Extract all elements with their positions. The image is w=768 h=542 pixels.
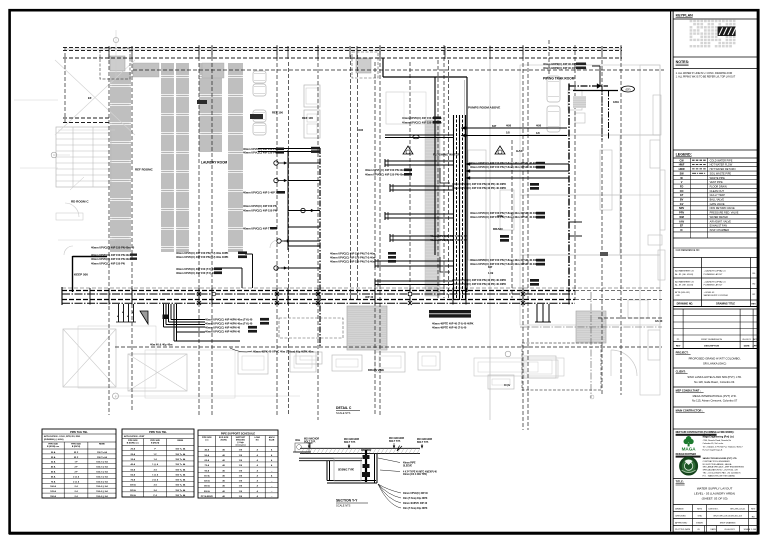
svg-text:2 @ 4: 2 @ 4 — [73, 480, 80, 483]
svg-text:KEYPLAN: KEYPLAN — [676, 14, 694, 18]
svg-text:100 A: 100 A — [130, 484, 136, 487]
svg-text:SHOP DRAWING: SHOP DRAWING — [720, 522, 736, 525]
svg-text:Maga Engineering (Pvt) Ltd.: Maga Engineering (Pvt) Ltd. — [703, 436, 735, 439]
svg-text:200 A: 200 A — [204, 490, 210, 493]
svg-text:AL. JR. (GE. 42003): AL. JR. (GE. 42003) — [675, 273, 693, 276]
svg-text:40 (hr: 40 (hr — [504, 384, 510, 387]
svg-text:PROJECT:: PROJECT: — [676, 351, 689, 355]
svg-text:40mm UPVC(C) 40P 40PN 40m (T-f: 40mm UPVC(C) 40P 40PN 40m (T-fl) 40 — [205, 322, 253, 326]
svg-text:40mm UPVC(C) 40P 150 PN 40m 40: 40mm UPVC(C) 40P 150 PN 40m 40 — [91, 246, 135, 250]
svg-text:NO 64/2 PIVILI ABNGE, JA-ELA: NO 64/2 PIVILI ABNGE, JA-ELA — [703, 463, 732, 466]
svg-text:HOT WATER FLOW: HOT WATER FLOW — [710, 164, 733, 167]
svg-text:FD: FD — [680, 185, 684, 188]
svg-text:REMK: REMK — [99, 444, 105, 446]
svg-text:40 A: 40 A — [131, 463, 136, 466]
svg-text:1849: 1849 — [613, 100, 619, 104]
svg-text:40m (T-flow) 40p 40PK: 40m (T-flow) 40p 40PK — [403, 497, 428, 500]
svg-text:REV: REV — [676, 346, 681, 348]
svg-text:150 4 @ 64: 150 4 @ 64 — [96, 495, 108, 498]
svg-text:40mm UPVC(C) 40P 150 PN (T-f): 40mm UPVC(C) 40P 150 PN (T-f) 40m 40PK — [176, 251, 229, 255]
svg-text:STA: STA — [698, 515, 703, 518]
svg-text:APPLICATION : COLD, WTR, RO,: APPLICATION : COLD, WTR, RO, DRG — [44, 435, 81, 438]
svg-text:40m: 40m — [295, 438, 301, 442]
svg-text:150 4 @ 64: 150 4 @ 64 — [96, 485, 108, 488]
svg-text:B (NOM) mm: B (NOM) mm — [47, 446, 59, 448]
svg-text:150 4 @ 64: 150 4 @ 64 — [96, 490, 108, 493]
svg-text:40mm UPVC(C) 40P 150 PN (T-flo: 40mm UPVC(C) 40P 150 PN (T-flow) 40m 40T… — [470, 165, 539, 169]
svg-text:WATER SUPPLY LAYOUT: WATER SUPPLY LAYOUT — [697, 487, 733, 491]
svg-text:05-06-2021: 05-06-2021 — [724, 529, 735, 531]
svg-text:75 A: 75 A — [131, 479, 136, 482]
svg-text:25 F: 25 F — [74, 452, 79, 454]
svg-text:32 A: 32 A — [131, 458, 136, 461]
svg-text:AIR ADMIT. VALVE: AIR ADMIT. VALVE — [710, 220, 732, 223]
svg-text:PRESSURE RED. VALVE: PRESSURE RED. VALVE — [710, 212, 739, 215]
svg-text:ATTN (GSL-011): ATTN (GSL-011) — [675, 291, 690, 294]
svg-text:1 B: 1 B — [239, 475, 243, 477]
svg-text:PLUMBING LAYOUT: PLUMBING LAYOUT — [704, 273, 724, 276]
svg-text:40mm UPVC(C) 40P 150 PN (40 PK: 40mm UPVC(C) 40P 150 PN (40 PK) 40 40PK — [452, 186, 506, 190]
svg-text:GAS: GAS — [516, 149, 523, 153]
svg-text:1 B: 1 B — [239, 455, 243, 457]
svg-text:LEGEND:: LEGEND: — [676, 153, 692, 157]
svg-text:40mm UPVC(C) 40P 150 PN: 40mm UPVC(C) 40P 150 PN — [243, 209, 277, 213]
svg-text:--: -- — [271, 496, 273, 498]
svg-text:REV: REV — [751, 509, 756, 511]
svg-text:150 2 @ 64: 150 2 @ 64 — [96, 475, 108, 478]
svg-text:160 A: 160 A — [204, 485, 210, 488]
svg-text:150 T+ 64: 150 T+ 64 — [175, 479, 186, 482]
svg-text:MEP CONSULTANT :: MEP CONSULTANT : — [676, 389, 701, 393]
svg-text:40mm UPVC(C) 40P 150 PN (T-flo: 40mm UPVC(C) 40P 150 PN (T-flow) 40m 40T… — [470, 211, 539, 215]
svg-text:--: -- — [271, 491, 273, 493]
svg-text:125 A: 125 A — [204, 480, 210, 483]
svg-text:MAGA: MAGA — [682, 447, 697, 452]
svg-text:DESIGN PARTNER: DESIGN PARTNER — [676, 453, 697, 456]
svg-text:CLEAN OUT: CLEAN OUT — [710, 190, 725, 193]
svg-text:ALKHANSHEER C/O: ALKHANSHEER C/O — [675, 270, 694, 273]
svg-text:mm (spec): mm (spec) — [235, 444, 245, 446]
svg-text:40mm UPVC(C) 40P 150 PN (T-f): 40mm UPVC(C) 40P 150 PN (T-f) 40m — [330, 260, 376, 264]
svg-text:75 A: 75 A — [205, 464, 210, 467]
svg-text:EF: EF — [88, 96, 92, 100]
svg-text:125 A: 125 A — [50, 490, 56, 493]
svg-text:COLD WATER PIPE: COLD WATER PIPE — [710, 159, 733, 162]
svg-text:AL. JR. (GE. 42003): AL. JR. (GE. 42003) — [675, 284, 693, 287]
svg-text:65 A: 65 A — [205, 459, 210, 462]
svg-text:40/6x: 40/6x — [497, 214, 504, 218]
svg-text:PIPING TRAK ROOM: PIPING TRAK ROOM — [543, 77, 575, 81]
svg-text:MEP SUB CONTRACTOR (PLUMBING: MEP SUB CONTRACTOR (PLUMBING & FIRE WORK… — [676, 431, 735, 434]
svg-text:WM: WM — [679, 216, 683, 219]
svg-text:40mm 40PK 40 UPVC 40m (T-flow): 40mm 40PK 40 UPVC 40m (T-flow) 40p 40PK … — [253, 350, 314, 354]
svg-text:M10 ANCHOR: M10 ANCHOR — [417, 438, 432, 441]
svg-text:EXHAUST FAN: EXHAUST FAN — [710, 225, 728, 228]
svg-text:PIPE SUPPORT SCHEDULE: PIPE SUPPORT SCHEDULE — [221, 431, 255, 435]
svg-text:BOLT TYP.: BOLT TYP. — [344, 442, 356, 444]
svg-text:SRI LANKA SPECIALS - MEP ENGIN: SRI LANKA SPECIALS - MEP ENGINEERING — [703, 466, 745, 469]
svg-text:FLUSHING WATER: FLUSHING WATER — [433, 153, 461, 157]
svg-text:DETAIL C: DETAIL C — [336, 406, 352, 410]
svg-text:75 A: 75 A — [51, 480, 56, 483]
svg-text:150 T+ 64: 150 T+ 64 — [175, 494, 186, 497]
svg-text:No 115, Attram Crescent, Colom: No 115, Attram Crescent, Colombo 07 — [692, 399, 738, 403]
svg-text:P.O. : SANDOTEC.NET SRI LANKA: P.O. : SANDOTEC.NET SRI LANKA — [703, 474, 736, 477]
svg-text:150 A: 150 A — [50, 495, 56, 498]
svg-text:BOLT TYP.: BOLT TYP. — [417, 442, 429, 444]
svg-text:WS-P-GHC-LVL03-WS-300-103: WS-P-GHC-LVL03-WS-300-103 — [713, 516, 742, 518]
svg-text:2 @ 4: 2 @ 4 — [73, 475, 80, 478]
svg-text:(EF): (EF) — [625, 87, 630, 91]
svg-text:CAD REFERENCE NO:: CAD REFERENCE NO: — [676, 249, 701, 252]
svg-text:150 T+ 64: 150 T+ 64 — [175, 448, 186, 451]
svg-text:REF ROOMC: REF ROOMC — [135, 168, 154, 172]
svg-text:150 2 @ 64: 150 2 @ 64 — [96, 466, 108, 469]
svg-text:40mm UPVC(C) 40P 150 PN: 40mm UPVC(C) 40P 150 PN — [243, 151, 277, 155]
svg-text:DRAIN VINE: DRAIN VINE — [368, 368, 384, 372]
svg-text:GS 40: GS 40 — [655, 319, 663, 323]
svg-text:PLUMBING LAYOUT: PLUMBING LAYOUT — [704, 284, 724, 287]
svg-text:REF 100: REF 100 — [302, 116, 313, 120]
svg-text:125 A: 125 A — [130, 489, 136, 492]
svg-text:#200, Nawala Road, Nawala,Sri: #200, Nawala Road, Nawala,Sri — [703, 440, 732, 442]
svg-text:DESCRIPTION: DESCRIPTION — [704, 346, 719, 348]
svg-text:HOT WATER RETURN: HOT WATER RETURN — [710, 168, 736, 171]
svg-text:110 A: 110 A — [204, 474, 210, 477]
svg-text:B (INCH): B (INCH) — [151, 443, 160, 445]
svg-text:50 A: 50 A — [205, 454, 210, 457]
svg-text:--: -- — [271, 481, 273, 483]
svg-text:40mm UPVC(C) 40P 150 PN (T-flo: 40mm UPVC(C) 40P 150 PN (T-flow) 40m 40T… — [470, 161, 539, 165]
svg-text:150 T+ 64: 150 T+ 64 — [175, 489, 186, 492]
svg-text:40P 40: 40P 40 — [365, 295, 374, 299]
svg-text:25 A: 25 A — [51, 456, 56, 459]
svg-text:HWF: HWF — [679, 164, 685, 167]
svg-text:APPLICATION : VENT: APPLICATION : VENT — [124, 435, 145, 438]
svg-text:AAV: AAV — [679, 220, 684, 223]
svg-text:PUMPS ROOM ABOVE: PUMPS ROOM ABOVE — [468, 106, 500, 110]
svg-text:1 @ 4: 1 @ 4 — [152, 473, 159, 476]
svg-text:40mm UPVC(C) 40P 150 PN (T-flo: 40mm UPVC(C) 40P 150 PN (T-flow) 40m 40T… — [470, 258, 539, 262]
svg-text:APPROVED: APPROVED — [675, 522, 688, 525]
svg-text:SPECIALIZATION NO - LK/ITY/44: SPECIALIZATION NO - LK/ITY/44 - 0/8 — [703, 469, 739, 472]
svg-text:REMK: REMK — [177, 440, 183, 442]
svg-text:40mm UPVC(C) 40P 150 PN: 40mm UPVC(C) 40P 150 PN — [91, 262, 125, 266]
svg-text:GT: GT — [680, 194, 684, 197]
svg-text:150 T+ 64: 150 T+ 64 — [175, 463, 186, 466]
svg-text:B (NOM) mm: B (NOM) mm — [127, 443, 139, 445]
svg-text:PIPE TAG TBL: PIPE TAG TBL — [149, 430, 167, 434]
svg-text:NOTES:: NOTES: — [676, 60, 690, 64]
svg-text:+ LEVEL 03: + LEVEL 03 — [704, 292, 716, 294]
svg-text:50 A: 50 A — [131, 468, 136, 471]
svg-text:GULLY TRAP: GULLY TRAP — [710, 194, 726, 197]
svg-text:TITLE:: TITLE: — [676, 480, 684, 484]
svg-text:150 T+ 64: 150 T+ 64 — [175, 453, 186, 456]
svg-text:1 B: 1 B — [239, 486, 243, 488]
svg-text:BALL VALVE: BALL VALVE — [710, 199, 725, 202]
svg-text:20 A: 20 A — [131, 448, 136, 451]
svg-text:PROPOSED GRAND HYATT COLOMBO,: PROPOSED GRAND HYATT COLOMBO, — [689, 357, 741, 361]
svg-text:1 B: 1 B — [239, 491, 243, 493]
svg-text:40 A: 40 A — [205, 449, 210, 452]
svg-text:RD ROOM C: RD ROOM C — [71, 200, 89, 204]
svg-text:1 B: 1 B — [239, 460, 243, 462]
svg-text:TEL: +94 112236475 FAX: +94 11: TEL: +94 112236475 FAX: +94 112236476 — [703, 472, 742, 475]
svg-text:40mm PIPE: 40mm PIPE — [403, 462, 416, 465]
svg-text:B (INCH): B (INCH) — [72, 446, 81, 448]
svg-text:1/8: 1/8 — [506, 131, 510, 135]
svg-text:40mm UPVC(C) 40P 150 PN (T-flo: 40mm UPVC(C) 40P 150 PN (T-flow) 40m 40T… — [470, 215, 539, 219]
svg-text:WASTE PIPE: WASTE PIPE — [710, 177, 726, 180]
svg-text:(NOM): (NOM) — [221, 440, 227, 442]
svg-text:1 B: 1 B — [239, 465, 243, 467]
svg-text:40mm UPVC(C) 40P 150 PN (T-f): 40mm UPVC(C) 40P 150 PN (T-f) 40m — [330, 252, 376, 256]
svg-text:BOLT TYP.: BOLT TYP. — [389, 441, 401, 443]
svg-text:DATE: DATE — [711, 528, 717, 531]
svg-text:MEGA INTERNATIONAL (PVT) LTD.: MEGA INTERNATIONAL (PVT) LTD. — [693, 394, 737, 398]
svg-text:40mm UPVC(C) 40P 40PN 40: 40mm UPVC(C) 40P 40PN 40 — [205, 330, 241, 334]
svg-text:40mm (XX 4 40G TPK): 40mm (XX 4 40G TPK) — [403, 473, 427, 476]
svg-text:NON RETURN VALVE: NON RETURN VALVE — [710, 207, 735, 210]
svg-text:MAIN CONTRACTOR :: MAIN CONTRACTOR : — [676, 409, 703, 413]
svg-text:IC: IC — [680, 229, 683, 232]
svg-text:No 118, Galle Road , Colombo 0: No 118, Galle Road , Colombo 03. — [694, 380, 735, 384]
svg-text:847: 847 — [492, 124, 497, 128]
svg-text:40mm UPVC(C) 40P 150 PN (40 PK: 40mm UPVC(C) 40P 150 PN (40 PK) 40 40PK — [452, 282, 506, 286]
svg-text:CONTRACTOR & ENGINEER: CONTRACTOR & ENGINEER — [703, 460, 731, 463]
svg-text:40mm UPVC(C) 40P 5 40P 150m: 40mm UPVC(C) 40P 5 40P 150m — [243, 191, 283, 195]
svg-text:FLOOR DRAIN: FLOOR DRAIN — [710, 185, 727, 188]
svg-text:40mm UPVC(C) 40P 150 (T-f) 40P: 40mm UPVC(C) 40P 150 (T-f) 40PK — [176, 271, 218, 275]
svg-text:40mm UPVC(C) 40P 150 PN: 40mm UPVC(C) 40P 150 PN — [243, 204, 277, 208]
svg-text:150 4 @ 64: 150 4 @ 64 — [96, 480, 108, 483]
svg-text:PIPE TAG TBL: PIPE TAG TBL — [70, 430, 88, 434]
svg-text:40mm UPVC(C) 40P 150 PN 40m: 40mm UPVC(C) 40P 150 PN 40m — [91, 253, 131, 257]
svg-text:M10 ANCHOR: M10 ANCHOR — [304, 438, 319, 441]
svg-text:NRV: NRV — [679, 207, 685, 210]
svg-text:--: -- — [271, 470, 273, 472]
svg-text:1:100: 1:100 — [751, 529, 757, 531]
svg-text:INSP. CHAMBER: INSP. CHAMBER — [710, 229, 730, 232]
svg-text:FIRST SUBMISSION: FIRST SUBMISSION — [701, 339, 722, 341]
svg-text:SOIL WASTE PIPE: SOIL WASTE PIPE — [710, 172, 732, 175]
svg-text:SECTION Y-Y: SECTION Y-Y — [336, 499, 358, 503]
svg-text:40mm UPVC(C) 40P 150 40 PK: 40mm UPVC(C) 40P 150 40 PK — [430, 238, 467, 242]
svg-text:1-09: 1-09 — [488, 271, 494, 275]
svg-text:40 A: 40 A — [51, 466, 56, 469]
svg-text:40mm UPVC(C) 40P 150 PN (T-f): 40mm UPVC(C) 40P 150 PN (T-f) 40m 40PK — [176, 255, 229, 259]
svg-text:--: -- — [271, 486, 273, 488]
svg-text:WATER SUPPLY SYSTEM: WATER SUPPLY SYSTEM — [704, 294, 728, 297]
svg-text:SW: SW — [680, 172, 685, 175]
svg-text:1 @ 4: 1 @ 4 — [152, 463, 159, 466]
svg-text:SLAB: SLAB — [269, 439, 275, 442]
svg-text:25 F: 25 F — [74, 457, 79, 459]
svg-text:100 A: 100 A — [50, 485, 56, 488]
svg-text:Tel: +94(0)11 4 795700 Fax:: Tel: +94(0)11 4 795700 Fax: 94(0)11 2 80… — [703, 446, 744, 448]
svg-text:40/6: 40/6 — [358, 128, 364, 132]
svg-text:EF: EF — [680, 225, 684, 228]
svg-text:DRAWN: DRAWN — [675, 508, 684, 511]
svg-text:25 A: 25 A — [131, 453, 136, 456]
svg-text:mm: mm — [205, 440, 209, 442]
svg-text:65 A: 65 A — [51, 475, 56, 478]
svg-text:Colombo 05, Sri Lanka.: Colombo 05, Sri Lanka. — [703, 443, 724, 445]
svg-text:40mm UPVC(C) 40P 150 (T-f) 40P: 40mm UPVC(C) 40P 150 (T-f) 40PK — [176, 267, 218, 271]
svg-text:GV: GV — [680, 203, 684, 206]
svg-text:150 Tx 64: 150 Tx 64 — [97, 456, 108, 459]
svg-text:+ LAUNDRY (UPVA) CO.: + LAUNDRY (UPVA) CO. — [704, 270, 727, 273]
svg-text:SANDO TECHNOLOGIES (PVT) LTD.: SANDO TECHNOLOGIES (PVT) LTD. — [703, 457, 738, 460]
svg-text:GHC-WS-L03-01: GHC-WS-L03-01 — [730, 509, 746, 511]
svg-text:+ LAUNDRY (UPVA) CO.: + LAUNDRY (UPVA) CO. — [704, 280, 727, 283]
svg-text:ENGR: ENGR — [696, 523, 703, 525]
svg-text:40mm UPVC(C) 40P 150 PN 40m: 40mm UPVC(C) 40P 150 PN 40m — [91, 257, 131, 261]
svg-text:150 T+ 64: 150 T+ 64 — [175, 458, 186, 461]
svg-text:2 @ 4: 2 @ 4 — [152, 479, 159, 482]
svg-text:1 B: 1 B — [239, 450, 243, 452]
svg-text:REF 100: REF 100 — [272, 111, 283, 115]
svg-text:PLOTTED DATE: PLOTTED DATE — [675, 528, 691, 531]
svg-text:65 A: 65 A — [131, 473, 136, 476]
svg-text:SCALE NTS: SCALE NTS — [336, 411, 351, 415]
svg-text:SINO LANKA HOTELS AND SPA (PVT: SINO LANKA HOTELS AND SPA (PVT). LTD. — [687, 375, 742, 379]
svg-text:32 A: 32 A — [51, 461, 56, 464]
svg-text:WATER METER: WATER METER — [710, 216, 728, 219]
svg-text:150 T+ 64: 150 T+ 64 — [175, 468, 186, 471]
svg-text:VENT PIPE: VENT PIPE — [710, 181, 723, 184]
svg-text:40mm 40UPVC 40P 40: 40mm 40UPVC 40P 40 — [403, 502, 428, 505]
svg-text:DRAWING NO.: DRAWING NO. — [677, 303, 694, 306]
svg-text:1 B: 1 B — [239, 496, 243, 498]
svg-text:ALKHANSHEER C/O: ALKHANSHEER C/O — [675, 280, 694, 283]
svg-text:40mm UPVC(C) 40P 150 PN (T-f): 40mm UPVC(C) 40P 150 PN (T-f) 40m — [330, 256, 376, 260]
svg-text:SLEEVE: SLEEVE — [403, 465, 413, 467]
svg-text:HWR: HWR — [679, 168, 685, 171]
svg-text:CHECKED: CHECKED — [675, 516, 686, 518]
svg-text:DATE: DATE — [744, 345, 750, 348]
svg-text:90 A: 90 A — [205, 469, 210, 472]
svg-text:40mm UPVC(C) 40P 150 PN (T-flo: 40mm UPVC(C) 40P 150 PN (T-flow) 40m 40T… — [470, 262, 539, 266]
svg-text:M10 ANCHOR: M10 ANCHOR — [389, 437, 404, 440]
svg-text:REV: REV — [751, 304, 756, 306]
svg-text:150 2 @ 64: 150 2 @ 64 — [96, 461, 108, 464]
svg-text:40mm UPVC(C) 40P 40: 40mm UPVC(C) 40P 40 — [403, 492, 428, 495]
svg-text:DRAWING TITLE: DRAWING TITLE — [716, 303, 735, 306]
svg-text:(RUNNING) @ HIGH): (RUNNING) @ HIGH) — [44, 439, 64, 441]
svg-text:150 2 @ 64: 150 2 @ 64 — [96, 471, 108, 474]
svg-text:05.03.21: 05.03.21 — [742, 339, 751, 341]
svg-text:40mm UPVC(C) 40P 150 PN (40 PK: 40mm UPVC(C) 40P 150 PN (40 PK) 40 40PK — [452, 278, 506, 282]
svg-text:LEVEL - 03 (LAUNDRY AREA): LEVEL - 03 (LAUNDRY AREA) — [694, 492, 735, 496]
svg-text:GATE VALVE: GATE VALVE — [710, 203, 725, 206]
svg-text:MTN: MTN — [697, 509, 702, 511]
svg-text:LAUNDRY ROOM: LAUNDRY ROOM — [201, 161, 228, 165]
svg-text:150 T+ 64: 150 T+ 64 — [175, 473, 186, 476]
svg-text:150 T+ 64: 150 T+ 64 — [175, 484, 186, 487]
svg-text:1. ALL PIPING WK IS TO BE REF: 1. ALL PIPING WK IS TO BE REFER LVL TOP … — [676, 76, 736, 79]
svg-text:PP SLEEVE: PP SLEEVE — [201, 496, 214, 498]
svg-text:CLIENT:: CLIENT: — [676, 370, 686, 374]
svg-text:150 A: 150 A — [130, 494, 136, 497]
svg-text:150 Tx 64: 150 Tx 64 — [97, 451, 108, 454]
svg-text:APP: APP — [753, 338, 758, 341]
svg-text:CW: CW — [680, 159, 685, 162]
svg-text:CO: CO — [680, 190, 684, 193]
svg-text:SCALE: SCALE — [744, 528, 751, 531]
svg-text:40/6: 40/6 — [536, 124, 542, 128]
svg-text:40mm UPVC(C) 40P 40PN 40: 40mm UPVC(C) 40P 40PN 40 — [205, 326, 241, 330]
svg-text:40/6: 40/6 — [506, 124, 512, 128]
svg-text:E-mail: mag@maga.lk: E-mail: mag@maga.lk — [703, 450, 723, 452]
svg-text:M10 ANCHOR: M10 ANCHOR — [344, 438, 359, 441]
svg-text:40m (T-flow) 40p 40PK: 40m (T-flow) 40p 40PK — [403, 507, 428, 510]
svg-text:APPD: APPD — [752, 345, 758, 348]
svg-text:1/8: 1/8 — [536, 131, 540, 135]
svg-text:DWG NO.: DWG NO. — [709, 509, 719, 511]
svg-text:KEEP 500: KEEP 500 — [74, 273, 88, 277]
svg-text:SCALE NTS: SCALE NTS — [336, 504, 351, 508]
svg-text:847: 847 — [488, 265, 493, 269]
svg-text:PRV: PRV — [679, 212, 684, 215]
svg-text:40mm UPVC(C) 40P 150 PN (40 PK: 40mm UPVC(C) 40P 150 PN (40 PK) 40 40PK — [452, 182, 506, 186]
svg-text:40m 40 & 40p 40m: 40m 40 & 40p 40m — [150, 343, 173, 347]
svg-text:20 A: 20 A — [51, 451, 56, 454]
svg-text:SRI LANKA (GHC): SRI LANKA (GHC) — [703, 362, 726, 366]
svg-text:40mm UPVC(C) 40P 40PN 40m (T-f: 40mm UPVC(C) 40P 40PN 40m (T-fl) 40 — [205, 318, 253, 322]
svg-text:SEISMIC TYPE: SEISMIC TYPE — [338, 470, 355, 472]
svg-text:(SHEET: 03 OF 03): (SHEET: 03 OF 03) — [702, 497, 728, 501]
svg-text:40mm 40PTE 40P 40 (T-f) 40 40P: 40mm 40PTE 40P 40 (T-f) 40 40PK — [432, 322, 474, 326]
svg-text:4 X P-TYPE 40 MTG 40(EXP) 40: 4 X P-TYPE 40 MTG 40(EXP) 40 — [403, 470, 438, 473]
svg-text:C: C — [53, 153, 55, 157]
svg-text:1 B: 1 B — [239, 481, 243, 483]
svg-text:KG: KG — [256, 440, 259, 442]
svg-text:1 B: 1 B — [239, 470, 243, 472]
svg-text:BV: BV — [680, 199, 684, 202]
svg-text:40mm UPVC(C) 40P 150 PN: 40mm UPVC(C) 40P 150 PN — [243, 147, 277, 151]
svg-text:DRAIN: DRAIN — [493, 227, 503, 231]
svg-text:50 A: 50 A — [51, 471, 56, 474]
svg-text:40mm 40PTE 40P 40 (T-f) 40: 40mm 40PTE 40P 40 (T-f) 40 — [432, 326, 467, 330]
svg-text:40mm UPVC(C) 40P 150 40 PK: 40mm UPVC(C) 40P 150 40 PK — [430, 234, 467, 238]
